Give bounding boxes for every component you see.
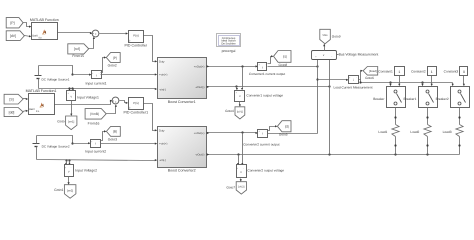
Input current2 block bbox=[85, 140, 106, 154]
Converter1 output voltage taps bbox=[236, 67, 243, 91]
svg-text:-vOut(-): -vOut(-) bbox=[195, 154, 204, 157]
wire Converter2 current output to positive bus A bottom bbox=[268, 133, 318, 135]
DC Voltage Source1 circuit loop wires bbox=[39, 66, 158, 91]
svg-text:Goto2: Goto2 bbox=[108, 63, 117, 67]
svg-text:+: + bbox=[95, 32, 97, 36]
wire Boost Converter1 vOut- to negative bus B bbox=[207, 85, 331, 88]
svg-text:1: 1 bbox=[431, 70, 433, 74]
svg-text:[ve2]: [ve2] bbox=[67, 188, 73, 192]
DC Voltage Source1 battery symbol bbox=[35, 74, 70, 82]
svg-text:From16: From16 bbox=[88, 121, 100, 125]
Goto tag Goto1 [ve2] bbox=[54, 185, 76, 199]
wire MATLAB Function to Sum1 bbox=[57, 32, 93, 34]
Goto tag Goto7 [oV2] bbox=[226, 182, 246, 194]
svg-text:PID Controller1: PID Controller1 bbox=[124, 111, 149, 115]
svg-text:Breaker2: Breaker2 bbox=[436, 97, 449, 101]
svg-text:+vin(+): +vin(+) bbox=[159, 143, 167, 146]
Constant2 block bbox=[411, 67, 436, 76]
Goto tag Goto5 [I2] bbox=[277, 121, 291, 137]
wire Converter1 current signal to Goto8 [I1] bbox=[268, 55, 274, 63]
svg-text:P(s): P(s) bbox=[133, 34, 139, 38]
svg-text:Input current1: Input current1 bbox=[86, 81, 107, 85]
bottom bus wire from Boost Converter2 vOut- to loads bbox=[207, 153, 460, 155]
svg-text:Converter1 current output: Converter1 current output bbox=[249, 72, 285, 76]
svg-text:Constant2: Constant2 bbox=[411, 69, 426, 73]
From tag From16 [VmB] bbox=[85, 109, 106, 126]
svg-text:BatV: BatV bbox=[32, 35, 38, 38]
From tag [S] bbox=[4, 94, 23, 104]
svg-text:Goto9: Goto9 bbox=[332, 34, 341, 38]
Breaker1 block bbox=[403, 87, 437, 108]
svg-text:Bus Voltage Measurement: Bus Voltage Measurement bbox=[339, 52, 379, 56]
Input Voltage2 block bbox=[65, 165, 98, 177]
MATLAB Function1 block U2 bbox=[26, 89, 57, 115]
DC Voltage Source2 circuit loop wires bbox=[37, 136, 158, 162]
junction dots Input Voltage2 taps bbox=[65, 159, 71, 165]
svg-text:Input Voltage2: Input Voltage2 bbox=[75, 169, 97, 173]
wire PID Controller to Boost Converter1 Duty bbox=[144, 36, 158, 63]
svg-text:Boost Converter1: Boost Converter1 bbox=[168, 100, 196, 104]
From tag [dV] bbox=[6, 31, 24, 41]
Goto tag Goto8 [I1] bbox=[274, 51, 292, 68]
svg-text:[oV1]: [oV1] bbox=[237, 111, 243, 114]
svg-text:[I2]: [I2] bbox=[285, 125, 289, 129]
svg-text:Goto5: Goto5 bbox=[279, 132, 288, 136]
svg-text:Load Current Measurement: Load Current Measurement bbox=[334, 86, 373, 90]
svg-text:0: 0 bbox=[463, 70, 465, 74]
Load3 branch resistor bbox=[443, 108, 463, 155]
svg-text:[dV]: [dV] bbox=[10, 34, 16, 38]
svg-text:MATLAB Function1: MATLAB Function1 bbox=[26, 89, 57, 93]
wire Bus Voltage Measurement to Goto9 [VMs] bbox=[323, 44, 325, 51]
PID Controller1 bbox=[124, 98, 149, 115]
wire Converter2 output voltage to Goto7 [oV2] bbox=[240, 179, 242, 182]
powergui block bbox=[217, 34, 241, 53]
svg-text:+vOut(+): +vOut(+) bbox=[194, 66, 205, 69]
svg-text:Goto4: Goto4 bbox=[225, 109, 234, 113]
wire MATLAB Function1 to Sum2 bbox=[54, 100, 113, 105]
svg-text:1: 1 bbox=[398, 70, 400, 74]
wire Input current2 to Boost Converter2 vin+ bbox=[101, 143, 158, 145]
positive bus A vertical bbox=[316, 60, 318, 134]
wire Input current1 to Boost Converter1 vin+ bbox=[101, 73, 158, 75]
wire From[S] to MATLAB Function1 in1 bbox=[23, 98, 29, 100]
Load1 branch resistor bbox=[378, 108, 399, 155]
svg-text:[ref]: [ref] bbox=[74, 47, 80, 51]
Sum1 bbox=[92, 30, 99, 37]
Input Voltage1 block bbox=[67, 91, 99, 101]
svg-text:-vOut(-): -vOut(-) bbox=[195, 86, 204, 89]
Goto tag Goto [ve1] bbox=[57, 116, 77, 130]
svg-text:Duty: Duty bbox=[159, 130, 165, 133]
Goto tag Goto2 [P] bbox=[106, 53, 120, 68]
Breaker block bbox=[373, 87, 405, 108]
wire Boost Converter1 vOut+ to Converter1 current output bbox=[207, 65, 258, 67]
svg-text:Goto1: Goto1 bbox=[54, 188, 63, 192]
Boost Converter1 bbox=[158, 58, 207, 105]
load feed wire from bus A to breakers bbox=[318, 79, 349, 81]
MATLAB Function block U1 bbox=[30, 18, 59, 40]
wire Converter1 output voltage to Goto4 [oV1] bbox=[239, 102, 241, 107]
svg-text:[B]: [B] bbox=[113, 130, 117, 134]
svg-text:Boost Converter2: Boost Converter2 bbox=[168, 169, 196, 173]
svg-text:Converter1 output voltage: Converter1 output voltage bbox=[246, 93, 283, 97]
Converter2 output voltage taps bbox=[237, 133, 243, 166]
wire Sum2 to PID Controller1 bbox=[120, 101, 129, 105]
Constant3 block bbox=[444, 67, 468, 76]
svg-text:powergui: powergui bbox=[222, 49, 236, 53]
DC Voltage Source2 battery symbol bbox=[33, 142, 70, 150]
svg-text:DC Voltage Source1: DC Voltage Source1 bbox=[42, 77, 70, 81]
Goto tag Goto3 [B] bbox=[106, 126, 120, 141]
svg-text:DC Voltage Source2: DC Voltage Source2 bbox=[42, 144, 70, 148]
svg-text:Input Voltage1: Input Voltage1 bbox=[77, 96, 99, 100]
wire From[P] to MATLAB Function in1 bbox=[23, 23, 32, 28]
svg-text:-vin(-): -vin(-) bbox=[159, 159, 166, 162]
svg-text:Constant3: Constant3 bbox=[444, 69, 459, 73]
From tag [P] bbox=[6, 18, 23, 28]
svg-text:[dd]: [dd] bbox=[9, 110, 15, 114]
svg-text:Input current2: Input current2 bbox=[85, 150, 106, 154]
svg-text:Constant1: Constant1 bbox=[378, 69, 393, 73]
svg-text:From15: From15 bbox=[72, 54, 84, 58]
Sum2 bbox=[112, 97, 119, 104]
svg-text:[Iload]: [Iload] bbox=[369, 69, 377, 73]
svg-text:Breaker: Breaker bbox=[373, 97, 385, 101]
Converter2 output voltage block bbox=[237, 165, 285, 178]
wire From[dV] to MATLAB Function in2 bbox=[25, 35, 32, 37]
Goto tag Goto9 [VMs] bbox=[320, 29, 341, 44]
wire Converter2 current signal to Goto5 [I2] bbox=[268, 125, 278, 130]
svg-text:-vin(-): -vin(-) bbox=[159, 88, 166, 91]
Goto tag Goto6 [Iload] bbox=[363, 67, 378, 81]
svg-text:MATLAB Function: MATLAB Function bbox=[30, 18, 59, 22]
From tag From15 [ref] bbox=[68, 44, 89, 58]
wire Input current2 signal to Goto3 bbox=[101, 130, 107, 140]
svg-text:Goto: Goto bbox=[57, 120, 64, 124]
svg-text:[VmB]: [VmB] bbox=[90, 112, 99, 116]
svg-text:[ve1]: [ve1] bbox=[68, 120, 74, 124]
Bus Voltage Measurement block bbox=[312, 51, 379, 60]
svg-text:[S]: [S] bbox=[9, 97, 13, 101]
svg-text:De Snubber: De Snubber bbox=[221, 43, 235, 46]
svg-text:[I1]: [I1] bbox=[283, 55, 287, 59]
svg-text:Load3: Load3 bbox=[443, 130, 452, 134]
wire Input Voltage1 to Goto [ve1] bbox=[70, 101, 72, 117]
junction dots Input Voltage1 taps bbox=[68, 87, 74, 90]
wire From16 [VmB] to Sum2 bottom bbox=[107, 104, 118, 113]
Load2 branch resistor bbox=[410, 108, 431, 155]
svg-text:+vOut(+): +vOut(+) bbox=[194, 132, 205, 135]
wire Converter1 current output to positive bus A bbox=[268, 65, 319, 67]
Load Current Measurement block bbox=[334, 76, 373, 90]
svg-text:Converter2 current output: Converter2 current output bbox=[243, 143, 279, 147]
svg-text:Converter2 output voltage: Converter2 output voltage bbox=[247, 168, 284, 172]
wire From[dd] to MATLAB Function1 in2 bbox=[23, 110, 29, 112]
svg-text:PID Controller: PID Controller bbox=[125, 44, 148, 48]
svg-text:[P]: [P] bbox=[10, 21, 14, 25]
wire From15 [ref] to Sum1 bottom bbox=[89, 37, 96, 49]
svg-text:Goto8: Goto8 bbox=[278, 63, 287, 67]
Input current1 block bbox=[86, 71, 107, 86]
wire Sum1 to PID Controller bbox=[100, 32, 129, 34]
svg-text:Load2: Load2 bbox=[410, 130, 419, 134]
wire Input current1 signal to Goto2 bbox=[101, 56, 107, 72]
svg-text:Goto7: Goto7 bbox=[226, 186, 235, 190]
negative bus B vertical bbox=[329, 60, 331, 155]
svg-text:+: + bbox=[115, 100, 117, 104]
svg-text:Load1: Load1 bbox=[378, 130, 387, 134]
Breaker2 block bbox=[436, 87, 470, 108]
wire PID Controller1 to Boost Converter2 Duty bbox=[144, 104, 158, 132]
svg-text:+vin(+): +vin(+) bbox=[159, 74, 167, 77]
Constant1 block bbox=[378, 67, 404, 76]
svg-text:[oV2]: [oV2] bbox=[238, 186, 244, 189]
breaker feed stubs down bbox=[389, 83, 453, 87]
svg-text:Goto6: Goto6 bbox=[365, 76, 374, 80]
svg-text:P(s): P(s) bbox=[133, 101, 139, 105]
Converter1 current output block bbox=[249, 63, 285, 77]
Converter2 current output block bbox=[243, 130, 279, 147]
wire Boost Converter2 vOut+ to Converter2 current output bbox=[207, 131, 258, 134]
svg-text:Goto3: Goto3 bbox=[108, 137, 117, 141]
svg-text:Breaker1: Breaker1 bbox=[403, 97, 416, 101]
Boost Converter2 bbox=[158, 127, 207, 173]
svg-text:VMs: VMs bbox=[322, 34, 328, 37]
constant output stubs to breakers bbox=[398, 76, 465, 87]
From tag [dd] bbox=[4, 108, 23, 117]
svg-text:Duty: Duty bbox=[159, 61, 165, 64]
PID Controller bbox=[125, 31, 148, 48]
wire Load Current Measurement output to breaker feed line bbox=[359, 80, 453, 84]
wire Input Voltage2 to Goto1 [ve2] bbox=[68, 177, 70, 185]
svg-text:BatV: BatV bbox=[29, 108, 35, 111]
svg-text:[P]: [P] bbox=[113, 56, 117, 60]
junction node DC2 to Input current2 bbox=[71, 142, 90, 145]
wire load current signal to Goto6 [Iload] bbox=[361, 70, 364, 80]
Converter1 output voltage block bbox=[235, 91, 284, 102]
Goto tag Goto4 [oV1] bbox=[225, 107, 245, 119]
junction node DC1 to Input current1 bbox=[71, 73, 91, 75]
